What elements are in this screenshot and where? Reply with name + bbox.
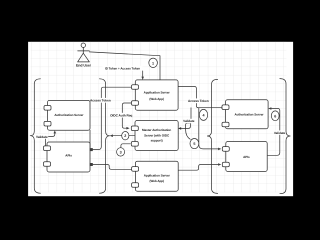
- svg-text:End User: End User: [76, 63, 92, 67]
- slide: [28, 42, 293, 196]
- svg-text:APIs: APIs: [65, 154, 72, 158]
- wire access token left: app server 1 port to APIs square: [93, 87, 132, 149]
- halo label OIDC Auth Req: [111, 113, 131, 118]
- wire auth server right edge down to APIs square: [89, 130, 91, 148]
- svg-text:APIs: APIs: [243, 155, 250, 159]
- ports app server 1: [132, 85, 139, 90]
- svg-text:5: 5: [193, 142, 195, 146]
- brace right group open: [207, 79, 217, 193]
- halo label Validate left: [36, 134, 48, 139]
- ports auth server right: [222, 105, 229, 110]
- circle 4: [199, 109, 207, 120]
- wire access token right: app server 1 to auth server right: [178, 87, 222, 108]
- ports master: [131, 126, 138, 131]
- box APIs left: [47, 142, 90, 172]
- svg-text:Server (with OIDC: Server (with OIDC: [144, 133, 170, 137]
- square connector APIs upper: [90, 148, 93, 151]
- svg-text:(Web App): (Web App): [149, 97, 164, 101]
- halo label Access Token right: [189, 98, 208, 103]
- wire OIDC auth req: [122, 103, 131, 128]
- brace left group open: [30, 79, 40, 193]
- svg-text:2: 2: [124, 134, 126, 138]
- wire actor to app server 1: [89, 52, 160, 80]
- square connector APIs lower: [90, 163, 93, 166]
- circle 3: [117, 148, 125, 156]
- svg-text:Authorization Server: Authorization Server: [54, 113, 84, 117]
- brace right group close: [280, 79, 290, 194]
- wire validate left: APIs port up into auth server bottom: [45, 133, 54, 145]
- circle 1: [149, 58, 158, 67]
- box application server 2: [135, 161, 178, 191]
- svg-text:ID Token + Access Token: ID Token + Access Token: [105, 67, 140, 71]
- circle 6: [271, 111, 279, 121]
- wire validate right: APIs up into auth server right edge: [268, 109, 280, 156]
- ports auth server left: [44, 106, 51, 111]
- halo label Validate right lower: [274, 130, 285, 134]
- svg-text:Access Token: Access Token: [188, 99, 209, 103]
- wire app server 2 to right APIs lower port: [178, 165, 218, 171]
- svg-text:Validate: Validate: [36, 135, 48, 139]
- wire master lower port to circle 3: [121, 144, 130, 148]
- svg-text:Validate: Validate: [183, 119, 195, 123]
- circle 5: [190, 139, 199, 149]
- svg-text:(Web App): (Web App): [149, 179, 164, 183]
- svg-text:OIDC Auth Req: OIDC Auth Req: [110, 114, 132, 118]
- svg-text:support): support): [151, 139, 163, 143]
- ports APIs right: [222, 147, 229, 152]
- svg-text:Access Token: Access Token: [90, 99, 111, 103]
- halo label Access Token left: [91, 98, 110, 103]
- svg-text:Application Server: Application Server: [144, 173, 171, 177]
- wire right branch down through validate to circle 5 and APIs port: [186, 108, 191, 140]
- box authorization server left: [48, 100, 91, 130]
- wire master to left group (circle 2): [113, 135, 135, 137]
- ports app server 2: [132, 167, 139, 172]
- svg-text:Validate: Validate: [274, 131, 286, 135]
- halo label Validate right upper: [184, 119, 194, 123]
- svg-text:Authorization Server: Authorization Server: [235, 113, 265, 117]
- wire ID token arrow into app server 1: [142, 71, 144, 77]
- wire APIs lower square to app server 2: [93, 165, 132, 170]
- halo label ID Token + Access Token: [103, 66, 143, 71]
- svg-text:Master Authorization: Master Authorization: [142, 128, 171, 132]
- brace left group close: [99, 79, 109, 193]
- box master authorization server: [135, 121, 178, 151]
- svg-text:3: 3: [120, 150, 122, 154]
- circle 2: [122, 132, 129, 140]
- box authorization server right: [226, 100, 269, 129]
- box APIs right: [226, 142, 267, 172]
- actor End User: [78, 43, 90, 62]
- ports APIs left: [44, 146, 51, 151]
- svg-text:6: 6: [274, 114, 276, 118]
- box application server 1: [135, 80, 178, 110]
- svg-text:Application Server: Application Server: [144, 90, 171, 94]
- svg-text:1: 1: [152, 61, 154, 65]
